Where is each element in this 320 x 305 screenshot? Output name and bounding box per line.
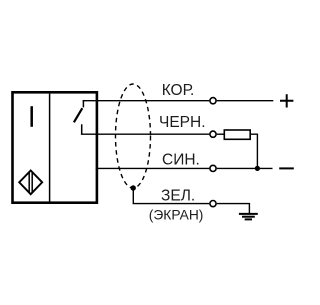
svg-text:КОР.: КОР.: [162, 82, 195, 99]
svg-text:СИН.: СИН.: [162, 151, 200, 168]
inductive sensor symbol (diamond): [19, 171, 42, 195]
switch blade (diagonal): [74, 108, 82, 122]
minus sign: [279, 167, 294, 169]
wire CHERN terminal to resistor: [217, 133, 224, 135]
terminal circle SIN: [210, 165, 216, 171]
wire KOR (brown) from switch to terminal: [83, 100, 210, 102]
svg-text:ЗЕЛ.: ЗЕЛ.: [161, 188, 195, 205]
diamond band left line: [28, 172, 30, 193]
output indicator mark: [30, 106, 33, 127]
ground symbol bar 2: [242, 216, 255, 218]
diamond band right line: [31, 172, 33, 193]
svg-text:(ЭКРАН): (ЭКРАН): [149, 208, 204, 223]
terminal circle CHERN: [210, 131, 216, 137]
cable sheath ellipse (dashed): [116, 84, 151, 188]
shield junction dot: [131, 185, 136, 190]
wire SIN (blue) from body to terminal: [96, 167, 209, 169]
terminal circle KOR: [210, 98, 216, 104]
switch lower stub: [81, 124, 83, 134]
wire SIN after terminal: [217, 167, 273, 169]
sensor body divider: [49, 94, 51, 202]
wire resistor to corner: [250, 134, 257, 168]
plus sign: [280, 94, 293, 107]
sensor body outline: [13, 92, 97, 202]
wire KOR after terminal: [217, 100, 273, 102]
terminal circle ZEL: [210, 201, 216, 207]
ground symbol bar 3: [245, 218, 252, 220]
switch (NO contact) upper stub: [82, 101, 84, 108]
ground symbol bar 1: [239, 213, 258, 215]
junction dot on SIN wire: [255, 166, 260, 171]
wire CHERN (black) from switch to terminal: [81, 133, 209, 135]
wire ZEL (shield) drop from dot: [133, 188, 209, 204]
svg-text:ЧЕРН.: ЧЕРН.: [159, 114, 206, 131]
wire ZEL terminal to ground: [217, 204, 250, 213]
resistor (load): [224, 130, 250, 139]
